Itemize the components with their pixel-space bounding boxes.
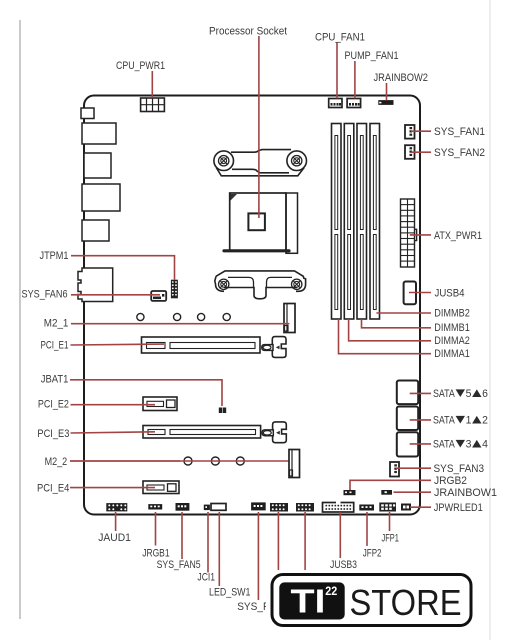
label JRGB2	[434, 475, 467, 487]
svg-text:22: 22	[325, 586, 337, 598]
M2_1 standoff holes	[137, 313, 231, 320]
connector M2_2 slot	[289, 450, 300, 478]
connector CPU_PWR1	[141, 98, 165, 112]
connector JUSB3	[323, 501, 354, 512]
connector SYS_FAN2	[405, 145, 415, 159]
wire JTPM1 leader	[71, 256, 175, 280]
connector JPWRLED1	[401, 504, 411, 511]
label DIMMB2	[434, 307, 470, 319]
wire M2_2 leader	[70, 460, 180, 462]
svg-text:JRAINBOW1: JRAINBOW1	[434, 487, 497, 499]
wire PCI_E1 leader	[71, 343, 165, 346]
wire JFP1 leader	[389, 512, 391, 531]
label JPWRLED1	[434, 502, 483, 514]
slot PCI_E4	[143, 481, 179, 494]
logo sticker background	[266, 570, 478, 638]
label SYS_FAN3	[434, 463, 485, 475]
processor socket	[224, 193, 298, 253]
screw bottom-right	[292, 279, 302, 289]
connector SYS_FAN4	[251, 502, 266, 510]
label SYS_FAN2	[434, 147, 485, 159]
wire DIMMB2 leader	[376, 312, 431, 314]
svg-text:JRGB1: JRGB1	[142, 547, 169, 559]
wire PUMP_FAN1 leader	[354, 61, 356, 99]
label Processor Socket	[209, 26, 287, 38]
connector JFP2	[359, 505, 374, 511]
svg-text:SATA: SATA	[433, 388, 455, 400]
label JBAT1	[41, 373, 69, 385]
label CPU_FAN1	[315, 31, 365, 43]
connector JTPM1	[171, 280, 178, 299]
label PCI_E1	[41, 340, 69, 352]
connector ATX_PWR1	[401, 199, 417, 267]
wire Processor Socket leader	[258, 36, 260, 218]
label SATA12	[433, 415, 488, 427]
sata block 3/4	[397, 432, 418, 456]
wire DIMMA1 leader	[339, 319, 432, 354]
label M2_2	[45, 456, 68, 468]
wire JRAINBOW2 leader	[386, 83, 388, 100]
io port 2	[82, 123, 116, 144]
slot PCI_E1	[142, 337, 261, 353]
wire SYS_FAN1 leader	[411, 130, 431, 132]
connector JRGB1	[148, 504, 162, 509]
label SYS_FAN6	[22, 289, 68, 301]
cpu bracket top	[214, 150, 307, 176]
svg-text:DIMMA1: DIMMA1	[434, 348, 470, 360]
wire SYS_FAN2 leader	[411, 151, 431, 153]
connector JRAINBOW1	[381, 490, 392, 495]
label SATA34	[433, 439, 488, 451]
svg-text:DIMMB2: DIMMB2	[434, 307, 470, 319]
connector JUSB2 header	[296, 503, 314, 512]
sata block 1/2	[397, 407, 418, 431]
wire JUSB1 leader	[277, 512, 279, 571]
connector SYS_FAN3	[390, 462, 399, 477]
connector SYS_FAN5	[176, 503, 190, 511]
connector SYS_FAN6	[151, 291, 166, 301]
logo TI text	[291, 583, 338, 620]
connector JRAINBOW2	[378, 100, 393, 105]
label LED_SW1	[209, 587, 251, 599]
wire PCI_E2 leader	[71, 404, 156, 406]
svg-text:DIMMA2: DIMMA2	[434, 335, 470, 347]
svg-text:JBAT1: JBAT1	[41, 373, 69, 385]
dimm slot 1	[332, 124, 342, 320]
svg-text:2: 2	[482, 415, 488, 427]
io port 3	[84, 153, 111, 178]
label JFP2	[363, 548, 382, 560]
svg-text:PCI_E3: PCI_E3	[37, 428, 69, 440]
wire PCI_E4 leader	[70, 487, 155, 489]
svg-text:SATA: SATA	[433, 439, 455, 451]
svg-text:JUSB3: JUSB3	[330, 559, 357, 571]
svg-text:SYS_FAN1: SYS_FAN1	[434, 126, 485, 138]
svg-text:PCI_E4: PCI_E4	[37, 482, 69, 494]
svg-text:DIMMB1: DIMMB1	[434, 322, 470, 334]
wire JRGB2 leader	[350, 480, 431, 490]
dimm slot 3	[357, 124, 367, 320]
label DIMMA1	[434, 348, 470, 360]
wire SYS_FAN5 leader	[181, 512, 183, 559]
wire SATA34 leader	[410, 443, 431, 445]
wire SYS_FAN4 leader	[257, 512, 259, 600]
connector JRGB2	[344, 490, 356, 495]
M2_2 standoff holes	[70, 457, 292, 465]
connector LED_SW1	[211, 504, 226, 511]
wire JBAT1 leader	[70, 380, 222, 406]
wire PCI_E3 leader	[71, 432, 156, 433]
label SYS_FAN4	[237, 601, 288, 613]
svg-text:STORE: STORE	[350, 582, 462, 623]
wire JUSB3 leader	[339, 512, 341, 558]
connector SYS_FAN1	[405, 125, 415, 139]
dimm slot 4	[370, 124, 380, 320]
wire M2_1 leader	[71, 323, 289, 325]
label PCI_E2	[38, 399, 69, 411]
label DIMMB1	[434, 322, 470, 334]
label JAUD1	[98, 532, 131, 544]
wire CPU_PWR1 leader	[151, 71, 153, 98]
connector JUSB1 header	[270, 503, 288, 512]
wire JRAINBOW1 leader	[394, 491, 432, 493]
svg-text:3: 3	[466, 439, 472, 451]
connector JCI1	[204, 505, 210, 511]
connector JUSB4	[404, 282, 416, 305]
svg-text:PCI_E2: PCI_E2	[38, 399, 69, 411]
connector JBAT1	[219, 408, 226, 414]
wire JAUD1 leader	[115, 512, 117, 531]
label JFP1	[382, 533, 399, 545]
label JUSB4	[435, 287, 465, 299]
label JUSB3	[330, 559, 357, 571]
svg-text:LED_SW1: LED_SW1	[209, 587, 251, 599]
connector JFP1	[379, 503, 396, 512]
svg-text:M2_1: M2_1	[44, 318, 69, 330]
slot PCI_E3 latch	[262, 422, 286, 443]
svg-text:Processor Socket: Processor Socket	[209, 26, 287, 38]
wire SYS_FAN6 leader	[71, 294, 160, 296]
wire JCI1 leader	[207, 512, 209, 573]
label JRAINBOW2	[374, 72, 429, 84]
io port 1	[81, 108, 94, 119]
svg-text:JRGB2: JRGB2	[434, 475, 467, 487]
svg-text:4: 4	[482, 439, 488, 451]
svg-text:1: 1	[466, 415, 472, 427]
io audio block	[78, 268, 113, 302]
slot PCI_E3	[143, 426, 261, 439]
wire SATA56 leader	[410, 392, 431, 394]
logo STORE text	[350, 582, 462, 623]
screw top-right	[292, 156, 302, 166]
label ATX_PWR1	[434, 230, 482, 242]
wire CPU_FAN1 leader	[336, 42, 338, 99]
label JRAINBOW1	[434, 487, 497, 499]
svg-text:JTPM1: JTPM1	[40, 250, 69, 262]
screw top-left	[219, 156, 229, 166]
wire LED_SW1 leader	[218, 512, 220, 586]
dimm slot 2	[344, 124, 354, 320]
io port 4	[82, 184, 120, 211]
svg-text:6: 6	[482, 388, 488, 400]
wire DIMMA2 leader	[349, 319, 431, 341]
svg-text:PCI_E1: PCI_E1	[41, 340, 69, 352]
svg-text:CPU_FAN1: CPU_FAN1	[315, 31, 365, 43]
label JTPM1	[40, 250, 69, 262]
svg-text:SYS_FAN3: SYS_FAN3	[434, 463, 485, 475]
wire SATA12 leader	[410, 419, 431, 421]
screw bottom-left	[219, 279, 229, 289]
svg-text:JAUD1: JAUD1	[98, 532, 131, 544]
wire JUSB2 leader	[304, 512, 306, 571]
page edge gray line	[19, 20, 21, 619]
page edge faint right line	[489, 0, 491, 640]
label PCI_E4	[37, 482, 69, 494]
label JRGB1	[142, 547, 169, 559]
svg-text:JPWRLED1: JPWRLED1	[434, 502, 483, 514]
svg-text:CPU_PWR1: CPU_PWR1	[116, 60, 165, 72]
svg-text:SYS_FAN2: SYS_FAN2	[434, 147, 485, 159]
svg-text:SYS_FAN5: SYS_FAN5	[157, 559, 201, 571]
svg-text:TI: TI	[291, 583, 326, 620]
label SYS_FAN1	[434, 126, 485, 138]
wire SYS_FAN3 leader	[396, 467, 431, 469]
slot PCI_E2	[143, 397, 177, 411]
label SATA56	[433, 388, 488, 400]
svg-text:JUSB4: JUSB4	[435, 287, 465, 299]
svg-text:ATX_PWR1: ATX_PWR1	[434, 230, 482, 242]
label SYS_FAN5	[157, 559, 201, 571]
wire DIMMB1 leader	[362, 319, 432, 328]
label DIMMA2	[434, 335, 470, 347]
svg-text:SATA: SATA	[433, 415, 455, 427]
label M2_1	[44, 318, 69, 330]
io port 5	[82, 220, 109, 241]
svg-text:JFP2: JFP2	[363, 548, 382, 560]
svg-text:JRAINBOW2: JRAINBOW2	[374, 72, 429, 84]
board outline	[84, 96, 420, 515]
label PUMP_FAN1	[345, 50, 399, 62]
wire JFP2 leader	[366, 512, 368, 546]
connector M2_1 slot	[284, 304, 295, 333]
svg-text:PUMP_FAN1: PUMP_FAN1	[345, 50, 399, 62]
connector CPU_FAN1	[329, 99, 342, 108]
label JCI1	[197, 572, 215, 584]
svg-text:JCI1: JCI1	[197, 572, 215, 584]
connector JAUD1	[106, 503, 127, 511]
slot PCI_E1 latch	[262, 337, 286, 358]
wire JUSB4 leader	[409, 292, 431, 294]
cpu bracket bottom	[215, 271, 306, 299]
svg-text:JFP1: JFP1	[382, 533, 399, 545]
wire ATX_PWR1 leader	[410, 234, 431, 236]
label CPU_PWR1	[116, 60, 165, 72]
svg-text:5: 5	[466, 388, 472, 400]
wire JPWRLED1 leader	[410, 506, 431, 508]
wire JRGB1 leader	[155, 512, 157, 546]
svg-text:SYS_FAN6: SYS_FAN6	[22, 289, 68, 301]
label PCI_E3	[37, 428, 69, 440]
sata block 5/6	[397, 381, 418, 405]
svg-text:M2_2: M2_2	[45, 456, 68, 468]
logo TI STORE box	[272, 575, 471, 626]
connector PUMP_FAN1	[347, 99, 361, 108]
